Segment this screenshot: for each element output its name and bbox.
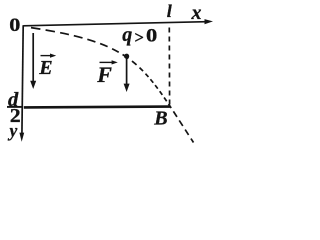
svg-text:>: > [135,28,144,47]
F force arrow [124,58,130,92]
trajectory dashed curve [24,27,194,143]
E field arrow [30,33,36,89]
y axis [19,25,24,142]
svg-text:q: q [122,24,132,46]
vector F label [96,60,118,87]
fraction d/2 [7,89,22,127]
svg-text:0: 0 [146,26,157,46]
svg-text:2: 2 [10,106,21,127]
charge dot q [124,54,129,59]
svg-text:x: x [191,2,202,24]
x axis [23,19,213,26]
dashed vertical line at x=l [168,28,170,107]
svg-text:l: l [167,1,172,21]
svg-text:0: 0 [9,13,20,35]
vector E label [38,54,56,80]
svg-text:B: B [153,107,167,129]
plate (bottom electrode at y=d/2) [24,105,171,108]
svg-text:F: F [96,62,112,87]
svg-text:E: E [38,57,52,79]
